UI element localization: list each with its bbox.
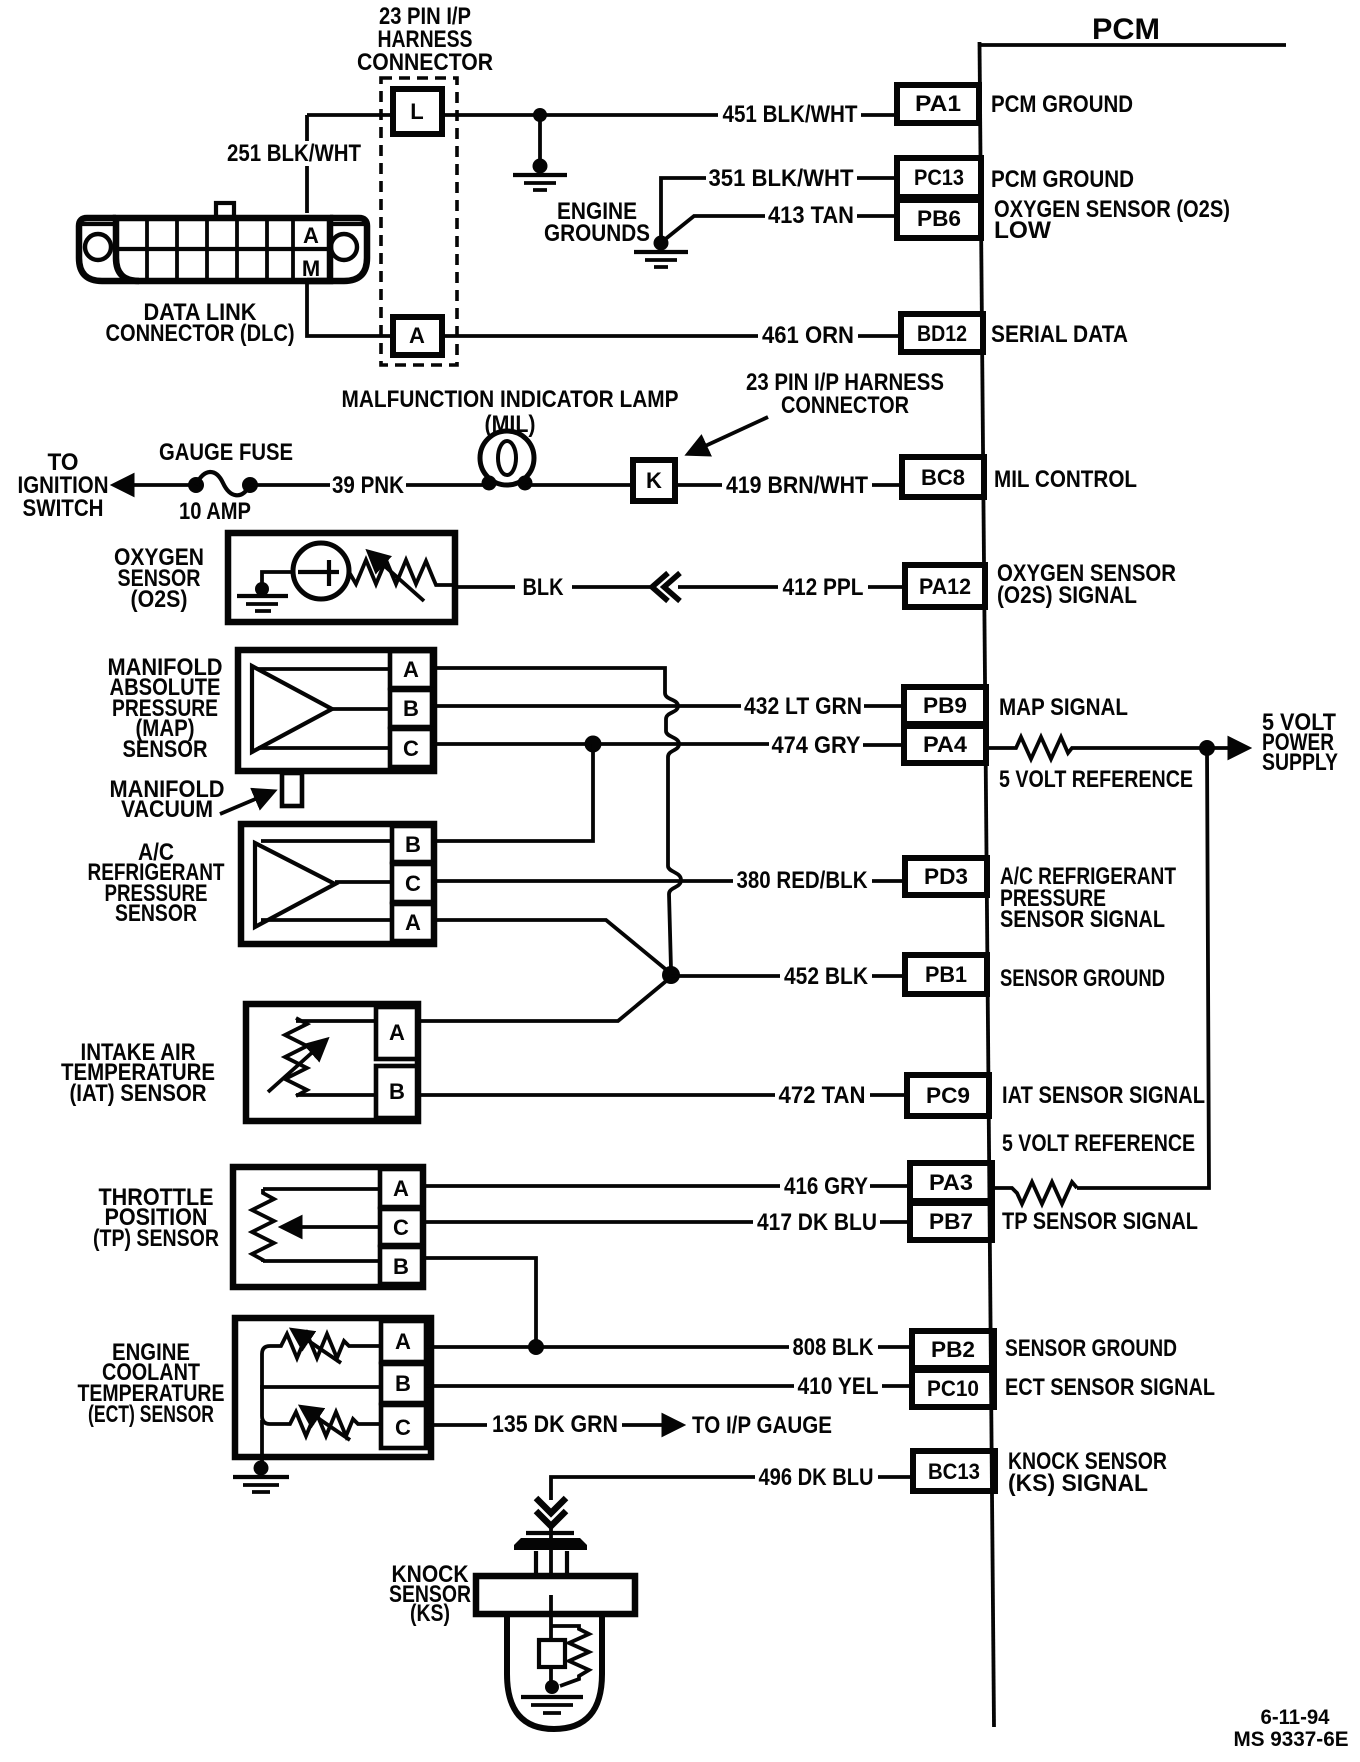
connector pin PD3 [905, 858, 987, 895]
node KNOCK SENSOR SIGNAL [1008, 1448, 1167, 1497]
pin A (IAT) [376, 1007, 418, 1059]
label ENGINE COOLANT TEMPERATURE (ECT) SENSOR [78, 1339, 225, 1428]
arrow to ignition switch [116, 483, 196, 487]
connector terminal L [393, 89, 442, 134]
svg-text:BC13: BC13 [928, 1459, 980, 1484]
junction on 451 wire [533, 108, 547, 122]
wire TP internal to pins [263, 1189, 380, 1261]
svg-text:PB9: PB9 [923, 693, 967, 718]
wire label 39 PNK [332, 472, 405, 499]
svg-text:A: A [409, 323, 425, 348]
op-amp MAP transducer triangle [252, 666, 332, 752]
fuse GAUGE FUSE 10A [188, 472, 258, 495]
svg-text:PC9: PC9 [926, 1083, 970, 1108]
svg-text:TO I/P GAUGE: TO I/P GAUGE [692, 1412, 832, 1439]
ground engine ground 1 [513, 159, 567, 191]
connector pin PB1 [905, 955, 987, 994]
A/C pressure sensor box [241, 824, 434, 944]
thermistor IAT variable resistor [268, 1018, 325, 1096]
svg-text:SENSOR GROUND: SENSOR GROUND [1000, 965, 1165, 992]
pin A (A/C) [392, 904, 434, 941]
node 5 VOLT REFERENCE (PA4) [999, 766, 1193, 793]
svg-text:351 BLK/WHT: 351 BLK/WHT [709, 165, 854, 192]
wire terminal A to BD12 (461 ORN) [442, 334, 901, 338]
wire A/C-A diagonal to sensor-ground node [434, 920, 669, 972]
svg-text:CONNECTOR (DLC): CONNECTOR (DLC) [106, 320, 295, 347]
svg-text:MIL CONTROL: MIL CONTROL [994, 466, 1137, 493]
piezo element (KS) [539, 1595, 565, 1684]
junction sensor ground node [662, 966, 680, 984]
wire label 412 PPL [783, 574, 864, 601]
svg-text:BD12: BD12 [917, 321, 967, 346]
wire ECT-C to I/P gauge (135 DK GRN) [426, 1423, 680, 1427]
label 10 AMP [179, 498, 251, 525]
ground knock sensor ground [521, 1680, 583, 1713]
svg-text:6-11-94: 6-11-94 [1261, 1706, 1330, 1729]
label MALFUNCTION INDICATOR LAMP (MIL) [342, 386, 679, 438]
svg-text:GAUGE FUSE: GAUGE FUSE [159, 439, 293, 466]
pin C (A/C) [392, 864, 434, 902]
label MANIFOLD VACUUM [110, 776, 225, 823]
svg-text:PB2: PB2 [931, 1337, 975, 1362]
svg-text:PB1: PB1 [925, 962, 967, 987]
pin M label (DLC) [302, 256, 320, 281]
PCM top boundary wire [978, 43, 1286, 47]
label KNOCK SENSOR (KS) [389, 1561, 471, 1627]
svg-text:SENSOR: SENSOR [115, 900, 197, 927]
label GAUGE FUSE [159, 439, 293, 466]
svg-text:SENSOR GROUND: SENSOR GROUND [1005, 1335, 1177, 1362]
connector pin BC13 [913, 1451, 995, 1491]
wire ECT internal ground rail [260, 1420, 264, 1466]
label DATA LINK CONNECTOR (DLC) [106, 299, 295, 347]
wire A/C internal to pins [261, 841, 392, 920]
node IAT SENSOR SIGNAL [1002, 1082, 1205, 1109]
wire label 808 BLK [793, 1334, 875, 1361]
node SENSOR GROUND (PB2) [1005, 1335, 1177, 1362]
label MS 9337-6E [1234, 1728, 1349, 1751]
wire BC13 to knock sensor (496 DK BLU) [551, 1477, 913, 1500]
label ENGINE GROUNDS [544, 198, 650, 247]
svg-text:472 TAN: 472 TAN [779, 1082, 866, 1109]
wire label 135 DK GRN [492, 1411, 618, 1438]
svg-text:PA1: PA1 [915, 91, 961, 116]
label INTAKE AIR TEMPERATURE (IAT) SENSOR [61, 1039, 215, 1107]
svg-text:BLK: BLK [523, 574, 565, 601]
junction TP-B / ECT-A [528, 1339, 544, 1355]
pin A label (DLC) [303, 223, 319, 248]
label 5 VOLT POWER SUPPLY [1262, 709, 1338, 776]
svg-text:380 RED/BLK: 380 RED/BLK [737, 867, 869, 894]
svg-text:5 VOLT REFERENCE: 5 VOLT REFERENCE [999, 766, 1193, 793]
svg-text:(KS): (KS) [410, 1600, 450, 1627]
wire MAP-A crossover down to sensor-ground node [432, 668, 681, 969]
wire label 413 TAN [768, 202, 854, 229]
connector pin PC10 [912, 1370, 994, 1407]
wire label 380 RED/BLK [737, 867, 869, 894]
connector pin PA3 [910, 1163, 992, 1201]
label TO I/P GAUGE [692, 1412, 832, 1439]
node PCM GROUND (PC13) [991, 166, 1134, 193]
wire label 452 BLK [784, 963, 869, 990]
svg-text:A: A [405, 910, 421, 935]
svg-text:C: C [395, 1415, 411, 1440]
thermistor ECT sensor element [262, 1331, 381, 1390]
wire PC13 to engine ground 2 (351 BLK/WHT) [661, 178, 897, 238]
connector pin BD12 [901, 314, 983, 352]
svg-text:(KS) SIGNAL: (KS) SIGNAL [1008, 1470, 1148, 1497]
label 6-11-94 [1261, 1706, 1330, 1729]
resistor O2S variable resistor [349, 553, 455, 601]
pin A (MAP) [390, 651, 432, 688]
op-amp A/C transducer triangle [255, 843, 335, 927]
svg-text:GROUNDS: GROUNDS [544, 220, 650, 247]
knock sensor body shell [507, 1614, 602, 1729]
svg-text:(O2S) SIGNAL: (O2S) SIGNAL [997, 582, 1137, 609]
ground ECT case ground [233, 1461, 289, 1493]
connector pin PB2 [912, 1331, 994, 1368]
connector pin PA12 [905, 565, 985, 607]
wire PB6 to engine ground 2 (413 TAN) [663, 216, 897, 241]
wire TP-B down to ECT-A wire [423, 1258, 536, 1347]
connector pin PA1 [897, 85, 979, 123]
node 5 VOLT REFERENCE (PA3) [1002, 1130, 1195, 1157]
svg-text:416 GRY: 416 GRY [784, 1173, 868, 1200]
svg-text:C: C [405, 871, 421, 896]
svg-text:BC8: BC8 [921, 465, 965, 490]
PCM left boundary wire [980, 42, 995, 1727]
wire O2S ground to source [262, 572, 292, 589]
svg-text:B: B [405, 832, 421, 857]
svg-text:SWITCH: SWITCH [23, 495, 104, 522]
svg-text:PB6: PB6 [917, 206, 961, 231]
svg-text:5 VOLT REFERENCE: 5 VOLT REFERENCE [1002, 1130, 1195, 1157]
wire MAP-B to PB9 (432 LT GRN) [432, 704, 904, 708]
svg-text:C: C [393, 1215, 409, 1240]
node ECT SENSOR SIGNAL [1005, 1374, 1215, 1401]
knock sensor terminal cap [514, 1526, 587, 1577]
wire junction down to engine ground 1 [538, 115, 542, 167]
svg-text:432 LT GRN: 432 LT GRN [744, 693, 862, 720]
svg-text:PD3: PD3 [924, 864, 968, 889]
node A/C REFRIGERANT PRESSURE SENSOR SIGNAL [1000, 863, 1176, 933]
pin C (ECT) [381, 1405, 426, 1448]
pin B (ECT) [381, 1364, 426, 1403]
label MANIFOLD ABSOLUTE PRESSURE (MAP) SENSOR [108, 654, 223, 763]
svg-text:SENSOR SIGNAL: SENSOR SIGNAL [1000, 906, 1165, 933]
svg-text:(TP) SENSOR: (TP) SENSOR [93, 1225, 219, 1252]
svg-text:PC13: PC13 [914, 165, 964, 190]
svg-text:461 ORN: 461 ORN [762, 322, 854, 349]
potentiometer TP resistor [252, 1189, 274, 1262]
pin B (IAT) [376, 1066, 418, 1118]
pin A (TP) [380, 1169, 423, 1207]
wire label BLK [523, 574, 565, 601]
wire label 474 GRY [772, 732, 861, 759]
svg-text:(IAT) SENSOR: (IAT) SENSOR [70, 1080, 207, 1107]
resistor internal (KS) [551, 1626, 589, 1686]
svg-text:B: B [395, 1371, 411, 1396]
svg-text:B: B [403, 696, 419, 721]
wiper TP arrow [284, 1225, 380, 1229]
connector inline break chevrons (knock) [536, 1498, 566, 1526]
pin C (MAP) [390, 729, 432, 767]
svg-text:412 PPL: 412 PPL [783, 574, 864, 601]
svg-text:251 BLK/WHT: 251 BLK/WHT [227, 140, 361, 167]
wire label 461 ORN [762, 322, 854, 349]
wire ECT-B internal [262, 1385, 381, 1389]
svg-text:A: A [393, 1176, 409, 1201]
svg-text:PCM: PCM [1092, 13, 1160, 46]
label 23 PIN I/P HARNESS CONNECTOR (top) [357, 3, 493, 76]
svg-text:A: A [389, 1020, 405, 1045]
wire terminal L to PA1 (451 BLK/WHT) [442, 113, 897, 117]
svg-text:451 BLK/WHT: 451 BLK/WHT [723, 101, 858, 128]
svg-text:410 YEL: 410 YEL [798, 1373, 879, 1400]
node SERIAL DATA [991, 321, 1128, 348]
svg-text:B: B [389, 1079, 405, 1104]
node MAP SIGNAL [999, 694, 1128, 721]
svg-text:LOW: LOW [994, 217, 1051, 244]
svg-text:452 BLK: 452 BLK [784, 963, 869, 990]
svg-text:417 DK BLU: 417 DK BLU [757, 1209, 877, 1236]
wire TP-A to PA3 (416 GRY) [423, 1184, 910, 1188]
svg-text:413 TAN: 413 TAN [768, 202, 854, 229]
MAP sensor box [238, 650, 434, 771]
node PCM GROUND (PA1) [991, 91, 1133, 118]
svg-text:39 PNK: 39 PNK [332, 472, 405, 499]
vacuum port stub [282, 773, 302, 806]
wire label 416 GRY [784, 1173, 868, 1200]
svg-text:PC10: PC10 [927, 1376, 979, 1401]
resistor PA3 pull-up [992, 1182, 1077, 1204]
label TO IGNITION SWITCH [18, 449, 109, 522]
svg-text:496 DK BLU: 496 DK BLU [759, 1464, 874, 1491]
wire MAP internal to pins [258, 669, 390, 748]
svg-text:IAT SENSOR SIGNAL: IAT SENSOR SIGNAL [1002, 1082, 1205, 1109]
svg-text:ECT SENSOR SIGNAL: ECT SENSOR SIGNAL [1005, 1374, 1215, 1401]
wire label 410 YEL [798, 1373, 879, 1400]
IAT sensor box [246, 1004, 418, 1121]
connector pin PB7 [910, 1203, 992, 1240]
label OXYGEN SENSOR (O2S) [114, 544, 204, 613]
svg-text:B: B [393, 1254, 409, 1279]
ground engine ground 2 [634, 236, 688, 268]
ECT sensor box [235, 1318, 431, 1457]
node SENSOR GROUND (PB1) [1000, 965, 1165, 992]
svg-text:M: M [302, 256, 320, 281]
wire TP-C to PB7 (417 DK BLU) [423, 1220, 910, 1224]
svg-text:419 BRN/WHT: 419 BRN/WHT [726, 472, 868, 499]
wire A/C-B up to 5V reference junction [434, 744, 593, 841]
svg-text:PA12: PA12 [919, 574, 971, 599]
wire DLC-M to terminal A [307, 281, 393, 336]
svg-text:135 DK GRN: 135 DK GRN [492, 1411, 618, 1438]
wire MIL to terminal K [525, 483, 633, 487]
connector pin PB9 [904, 687, 986, 724]
harness connector dashed box (top) [381, 78, 457, 365]
wire label 419 BRN/WHT [726, 472, 868, 499]
wire label 472 TAN [779, 1082, 866, 1109]
connector terminal K [633, 460, 675, 501]
svg-text:MS 9337-6E: MS 9337-6E [1234, 1728, 1349, 1751]
node OXYGEN SENSOR LOW [994, 196, 1230, 244]
svg-text:A: A [303, 223, 319, 248]
data link connector DLC body [79, 203, 367, 281]
svg-text:CONNECTOR: CONNECTOR [357, 49, 493, 76]
junction 5V supply node [1199, 740, 1215, 756]
connector pin PC13 [897, 158, 981, 197]
resistor PA4 pull-up [986, 737, 1207, 759]
node OXYGEN SENSOR SIGNAL [997, 560, 1176, 609]
junction MAP-C 5V branch [585, 736, 602, 753]
svg-text:VACUUM: VACUUM [121, 796, 213, 823]
wire label 251 BLK/WHT [227, 140, 361, 167]
wire ECT-A to PB2 (808 BLK) [426, 1345, 912, 1349]
wire IAT-B to PC9 (472 TAN) [418, 1093, 907, 1097]
lamp MIL bulb [480, 431, 534, 491]
pin B (A/C) [392, 826, 434, 862]
svg-text:CONNECTOR: CONNECTOR [781, 392, 909, 419]
source O2S voltage source circle [293, 543, 349, 599]
wire IAT internal to pins [296, 1021, 376, 1095]
pin A (ECT) [381, 1321, 426, 1362]
svg-text:PCM GROUND: PCM GROUND [991, 166, 1134, 193]
svg-text:(O2S): (O2S) [131, 586, 188, 613]
pin B (TP) [380, 1247, 423, 1284]
svg-text:SUPPLY: SUPPLY [1262, 749, 1338, 776]
svg-text:PB7: PB7 [929, 1209, 973, 1234]
knock sensor mounting flange [476, 1576, 635, 1614]
connector terminal A (harness) [393, 317, 442, 355]
connector pin BC8 [902, 457, 984, 497]
node TP SENSOR SIGNAL [1002, 1208, 1198, 1235]
svg-text:(ECT) SENSOR: (ECT) SENSOR [88, 1401, 214, 1428]
svg-text:PA3: PA3 [929, 1170, 973, 1195]
connector inline break chevrons [652, 573, 680, 601]
PCM label [1092, 13, 1160, 46]
svg-text:MALFUNCTION INDICATOR LAMP: MALFUNCTION INDICATOR LAMP [342, 386, 679, 413]
wire fuse to MIL (39 PNK) [250, 483, 489, 487]
svg-text:SENSOR: SENSOR [123, 736, 208, 763]
arrow to 5 volt power supply [1207, 746, 1246, 750]
wire 5V bus down to PA3 resistor [1077, 748, 1209, 1188]
label A/C REFRIGERANT PRESSURE SENSOR [88, 839, 225, 927]
TP sensor box [233, 1167, 423, 1287]
node MIL CONTROL [994, 466, 1137, 493]
svg-text:TP SENSOR SIGNAL: TP SENSOR SIGNAL [1002, 1208, 1198, 1235]
wire label 496 DK BLU [759, 1464, 874, 1491]
svg-text:474 GRY: 474 GRY [772, 732, 861, 759]
arrow pointer to terminal K [690, 417, 768, 453]
oxygen sensor O2S box [228, 533, 455, 622]
pin C (TP) [380, 1209, 423, 1245]
wire node to PB1 (452 BLK) [671, 974, 905, 978]
wire label 351 BLK/WHT [709, 165, 854, 192]
wire DLC-A to terminal L [307, 115, 393, 213]
thermistor ECT gauge sender element [262, 1385, 381, 1440]
wire terminal K to BC8 (419 BRN/WHT) [675, 483, 902, 487]
svg-text:C: C [403, 736, 419, 761]
wire label 432 LT GRN [744, 693, 862, 720]
wire O2S to PA12 (BLK / 412 PPL) [455, 585, 905, 589]
arrow pointer to vacuum port [220, 792, 272, 814]
ground O2S internal ground [237, 582, 288, 611]
wire A/C-C to PD3 (380 RED/BLK) [434, 879, 905, 883]
wire label 451 BLK/WHT [723, 101, 858, 128]
svg-text:A: A [395, 1329, 411, 1354]
svg-text:PA4: PA4 [923, 732, 968, 757]
svg-text:10 AMP: 10 AMP [179, 498, 251, 525]
connector pin PB6 [897, 200, 981, 238]
wire MAP-C to PA4 (474 GRY) [432, 744, 904, 745]
svg-text:L: L [410, 99, 423, 124]
connector pin PC9 [907, 1075, 989, 1116]
svg-text:MAP SIGNAL: MAP SIGNAL [999, 694, 1128, 721]
label 23 PIN I/P HARNESS CONNECTOR (mid) [746, 369, 944, 419]
wire IAT-A diagonal to sensor-ground node [418, 977, 671, 1021]
svg-text:PCM GROUND: PCM GROUND [991, 91, 1133, 118]
svg-text:A: A [403, 657, 419, 682]
svg-text:808 BLK: 808 BLK [793, 1334, 875, 1361]
pin B (MAP) [390, 690, 432, 727]
label THROTTLE POSITION (TP) SENSOR [93, 1184, 219, 1252]
connector pin PA4 [904, 726, 986, 763]
svg-text:K: K [646, 468, 662, 493]
wire label 417 DK BLU [757, 1209, 877, 1236]
wire ECT-B to PC10 (410 YEL) [426, 1384, 912, 1388]
svg-text:SERIAL DATA: SERIAL DATA [991, 321, 1128, 348]
